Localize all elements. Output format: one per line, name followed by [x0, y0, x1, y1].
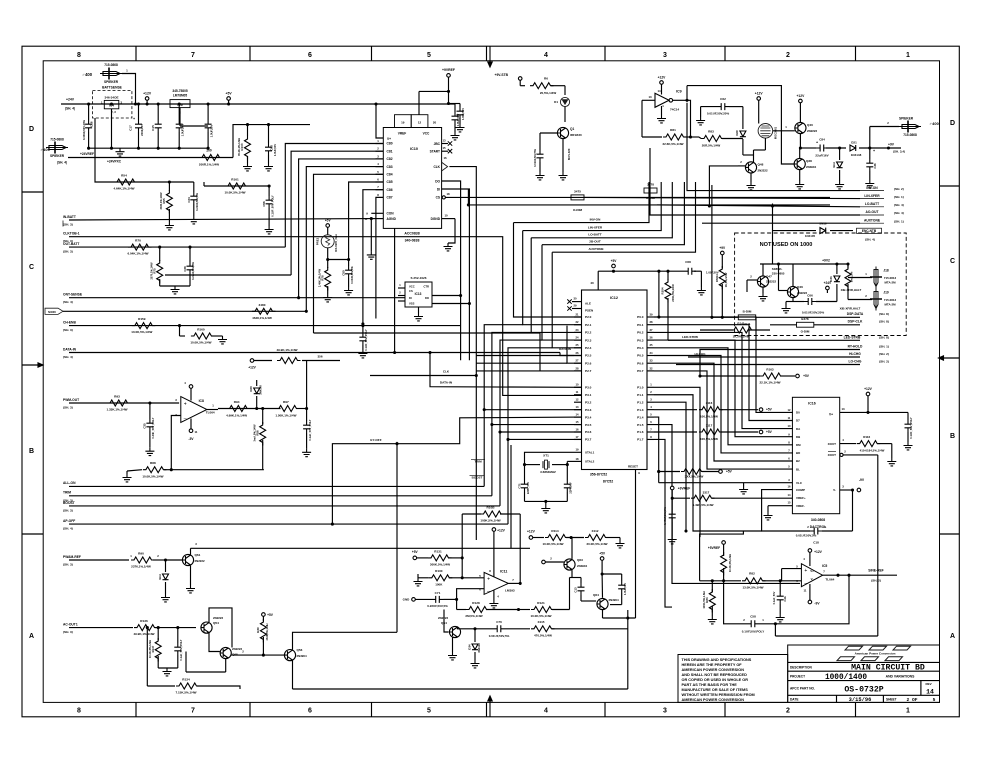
power V+ IC8: [184, 381, 193, 401]
wire RY-HOLD row: [700, 350, 860, 377]
svg-text:Q1: Q1: [570, 127, 574, 131]
svg-text:3mA,5%: 3mA,5%: [850, 271, 854, 282]
capacitor C20: [205, 104, 214, 148]
ground IC11: [489, 590, 499, 608]
svg-text:MTA-2M: MTA-2M: [884, 281, 896, 285]
wire IC8 output row: [207, 404, 281, 411]
svg-text:14: 14: [657, 89, 661, 93]
svg-text:87C52: 87C52: [603, 480, 613, 484]
svg-text:(SH. 8): (SH. 8): [879, 335, 889, 339]
svg-text:R70: R70: [135, 239, 141, 243]
svg-text:VSS: VSS: [409, 302, 415, 306]
ground Q54b: [448, 637, 457, 660]
svg-text:1: 1: [906, 52, 910, 59]
capacitor C77: [174, 626, 183, 668]
wire IC9 input: [642, 100, 655, 137]
svg-text:HI-CHG: HI-CHG: [695, 352, 707, 356]
svg-text:3.6864MHZ: 3.6864MHZ: [540, 470, 556, 474]
net label ONT-SENSE: [63, 293, 83, 305]
wire BOOST to P3.6: [470, 340, 582, 506]
svg-text:C34: C34: [187, 197, 191, 203]
svg-text:Q56: Q56: [297, 648, 303, 652]
svg-text:XTAL2: XTAL2: [585, 460, 595, 464]
svg-text:P2.6: P2.6: [585, 361, 592, 365]
svg-text:(SH. 3): (SH. 3): [63, 630, 73, 634]
capacitor C54: [358, 326, 368, 358]
svg-text:(SH. 4): (SH. 4): [63, 355, 73, 359]
power +12V: [143, 92, 152, 105]
transistor Q54b: [438, 616, 461, 638]
wire thermistor node: [328, 259, 349, 261]
svg-text:_: _: [486, 586, 490, 592]
capacitor C71: [517, 465, 530, 502]
wire DATA-IN: [69, 351, 582, 387]
svg-text:14: 14: [576, 413, 579, 417]
svg-text:C: C: [29, 264, 34, 271]
svg-text:P0.5: P0.5: [637, 354, 644, 358]
power +9V-STB: [495, 73, 525, 86]
inductor FB2 3478: [644, 183, 657, 201]
net label LO-BATT right: [860, 202, 904, 207]
capacitor C36: [865, 148, 877, 188]
svg-text:13: 13: [648, 95, 652, 99]
svg-text:2B-OUT: 2B-OUT: [589, 240, 601, 244]
svg-text:Q61: Q61: [195, 553, 201, 557]
svg-text:3mA: 3mA: [832, 162, 836, 168]
svg-text:J18: J18: [883, 269, 889, 273]
wire bus AO-OUT: [650, 148, 860, 215]
resistor R115: [531, 620, 628, 638]
svg-text:ONT-SENSE: ONT-SENSE: [63, 293, 83, 297]
svg-text:+24V: +24V: [66, 98, 75, 102]
title text date row: [790, 697, 936, 703]
svg-text:AUXTONE: AUXTONE: [588, 247, 603, 251]
svg-text:20R,5%,1/4W: 20R,5%,1/4W: [702, 144, 721, 148]
svg-text:3N4148: 3N4148: [477, 643, 481, 653]
svg-text:14: 14: [788, 493, 791, 497]
diode D33: [829, 264, 840, 302]
wire AC-OUT1: [69, 619, 196, 636]
svg-text:LM78M05: LM78M05: [173, 93, 188, 97]
svg-text:AP-OFF: AP-OFF: [63, 519, 75, 523]
svg-text:CTR: CTR: [423, 285, 429, 289]
svg-text:3: 3: [663, 52, 667, 59]
ground IC9: [657, 106, 666, 123]
svg-text:C56: C56: [262, 201, 266, 207]
svg-text:+: +: [816, 141, 818, 145]
svg-text:715-0868: 715-0868: [903, 133, 917, 137]
svg-text:22PF_50V: 22PF_50V: [526, 482, 530, 495]
svg-text:_: _: [183, 414, 187, 420]
svg-text:10.0K,5%,1/4W: 10.0K,5%,1/4W: [142, 474, 163, 478]
IC U10 ADC0838: [376, 115, 442, 243]
svg-text:2N2222: 2N2222: [807, 129, 818, 133]
svg-text:0.33F_50V_POLY: 0.33F_50V_POLY: [151, 417, 155, 438]
svg-text:(SH. 1): (SH. 1): [894, 195, 904, 199]
svg-text:1K,5%,1/4W: 1K,5%,1/4W: [733, 335, 750, 339]
svg-text:36: 36: [650, 336, 653, 340]
wire bus row P2.5 left: [476, 355, 574, 357]
svg-text:P2.4: P2.4: [585, 346, 592, 350]
svg-text:P3.7: P3.7: [585, 438, 592, 442]
net label IN-BATT: [63, 215, 76, 227]
dashed box BATTSENSE: [93, 86, 132, 119]
svg-text:+: +: [804, 568, 807, 574]
svg-text:AO-OUT: AO-OUT: [865, 210, 878, 214]
svg-text:+12V: +12V: [797, 94, 806, 98]
svg-text:A: A: [950, 633, 955, 640]
svg-text:1N4148: 1N4148: [851, 153, 862, 157]
op-amp IC8: [175, 397, 215, 423]
svg-text:10.0K,5%,1.NH: 10.0K,5%,1.NH: [728, 554, 732, 572]
svg-text:+12V: +12V: [248, 366, 256, 370]
svg-text:AMERICAN POWER CONVERSION: AMERICAN POWER CONVERSION: [682, 698, 745, 702]
power +24V box: [824, 281, 832, 293]
ground: [116, 148, 125, 156]
resistor R70: [127, 239, 151, 256]
svg-text:RESET: RESET: [628, 465, 638, 469]
wire OUT-BATT: [69, 246, 285, 249]
svg-text:8: 8: [77, 708, 81, 715]
net label DSP-CLK: [848, 320, 889, 324]
svg-text:40: 40: [590, 281, 594, 285]
power +5V pin 40: [590, 259, 684, 319]
svg-text:AND SHALL NOT BE REPRODUCED: AND SHALL NOT BE REPRODUCED: [682, 673, 748, 677]
svg-text:2N2222: 2N2222: [797, 291, 808, 295]
svg-text:A: A: [29, 633, 34, 640]
IC12 pin ALE no-connect: [567, 297, 581, 304]
transistor Q48: [745, 162, 768, 173]
svg-text:SPIEKER: SPIEKER: [104, 80, 119, 84]
svg-text:Q47: Q47: [766, 275, 772, 279]
svg-text:+5V: +5V: [412, 550, 419, 554]
svg-text:+5V: +5V: [267, 613, 274, 617]
power +9V left column: [719, 246, 726, 268]
connector J? speaker top: [82, 63, 122, 84]
capacitor C13: [574, 578, 597, 602]
resistor R94: [226, 400, 250, 418]
transistor Q64: [593, 593, 619, 610]
svg-text:4.99K,1%,1/4W: 4.99K,1%,1/4W: [226, 413, 247, 417]
capacitor C16: [82, 104, 94, 148]
svg-text:200R,1%,1/4W: 200R,1%,1/4W: [199, 163, 219, 167]
svg-text:P2.5: P2.5: [585, 354, 592, 358]
svg-text:V-: V-: [833, 488, 836, 492]
svg-text:TL064: TL064: [206, 411, 215, 415]
svg-text:1.33K,1%,1/4W: 1.33K,1%,1/4W: [106, 408, 127, 412]
svg-text:2: 2: [786, 708, 790, 715]
svg-text:XIB-XFIR,HALT: XIB-XFIR,HALT: [840, 307, 861, 311]
svg-text:+5V: +5V: [726, 470, 733, 474]
capacitor C45: [772, 581, 787, 622]
svg-text:B478: B478: [801, 317, 809, 321]
net label AUXTONE mid: [588, 247, 603, 251]
svg-text:28: 28: [576, 366, 579, 370]
svg-text:14: 14: [926, 689, 934, 696]
resistor R116: [857, 435, 897, 466]
svg-text:2570,1%,1/4W: 2570,1%,1/4W: [149, 262, 153, 280]
regulator IC6: [170, 89, 208, 126]
svg-text:♂400: ♂400: [929, 121, 939, 126]
svg-text:IC13: IC13: [415, 292, 422, 296]
svg-text:D33: D33: [829, 276, 833, 282]
svg-text:2: 2: [786, 52, 790, 59]
svg-text:(SH. 1): (SH. 1): [879, 345, 889, 349]
svg-text:22.1K,1%,1/4W: 22.1K,1%,1/4W: [759, 381, 780, 385]
svg-text:0.01UF,50V,5%: 0.01UF,50V,5%: [796, 534, 817, 538]
svg-text:R54: R54: [121, 174, 127, 178]
svg-text:KM14: KM14: [715, 274, 719, 282]
svg-text:DO: DO: [425, 296, 429, 300]
svg-text:C35: C35: [143, 423, 147, 429]
svg-text:ALL-ON: ALL-ON: [63, 481, 76, 485]
resistor R78: [317, 260, 332, 302]
svg-text:0.01UF,50V,5%: 0.01UF,50V,5%: [489, 634, 510, 638]
svg-text:AND VARIATIONS: AND VARIATIONS: [886, 674, 915, 678]
svg-text:CS: CS: [409, 289, 413, 293]
svg-text:P1.1: P1.1: [637, 393, 644, 397]
svg-text:TRIM: TRIM: [474, 460, 482, 464]
svg-text:+9V-STB: +9V-STB: [495, 73, 509, 77]
svg-text:P2.1: P2.1: [585, 323, 592, 327]
svg-text:C83: C83: [387, 165, 393, 169]
net label AO-OUT right: [860, 210, 904, 215]
capacitor C76: [489, 620, 530, 638]
svg-text:3mA,5%,1/4W: 3mA,5%,1/4W: [252, 424, 256, 441]
power +12V IC9: [658, 76, 667, 95]
capacitor C53a: [264, 123, 277, 171]
svg-text:5: 5: [933, 697, 936, 703]
svg-text:+: +: [487, 576, 490, 582]
svg-text:2N2222: 2N2222: [438, 616, 449, 620]
wire P2.6 stub: [567, 326, 582, 364]
wire Q54b base: [444, 610, 449, 633]
svg-text:DATA-IN: DATA-IN: [559, 347, 571, 351]
svg-text:0.1UF,50V,POLY: 0.1UF,50V,POLY: [742, 630, 764, 634]
svg-text:LIN-XFER: LIN-XFER: [864, 194, 880, 198]
svg-text:16: 16: [576, 427, 579, 431]
svg-text:100,5%,1/4W: 100,5%,1/4W: [700, 437, 718, 441]
net label LED-STRB: [844, 335, 889, 339]
svg-text:+12V: +12V: [527, 530, 536, 534]
wire CLKTOB-1: [69, 237, 582, 396]
net label BOOST: [63, 501, 75, 513]
svg-text:19: 19: [401, 121, 405, 125]
svg-text:P2.2: P2.2: [585, 331, 592, 335]
svg-text:340-0838: 340-0838: [405, 239, 420, 243]
resistor R117 pull-up: [657, 469, 732, 479]
title text project: [790, 674, 915, 682]
transistor Q46: [787, 264, 807, 298]
svg-text:_: _: [803, 578, 807, 584]
capacitor C21: [451, 104, 461, 140]
svg-text:DATE: DATE: [790, 698, 798, 702]
svg-text:2 OF: 2 OF: [906, 697, 917, 703]
wire Q63 emitter: [570, 570, 582, 577]
resistor R88: [123, 461, 264, 482]
svg-text:V+: V+: [829, 413, 833, 417]
junction dots rail: [87, 102, 230, 149]
notes text block: [682, 658, 755, 702]
wire LED-STRB row: [668, 335, 860, 340]
wire XOUT2: [840, 449, 878, 636]
svg-text:D0: D0: [796, 411, 800, 415]
svg-text:C84: C84: [819, 138, 825, 142]
svg-text:356: 356: [317, 355, 322, 359]
svg-text:+9V2: +9V2: [822, 259, 830, 263]
svg-text:2N3904: 2N3904: [297, 654, 308, 658]
wire Q54b collector row: [458, 626, 494, 628]
wire TRIM to P3.5: [471, 332, 582, 495]
svg-text:JBC: JBC: [434, 142, 441, 146]
svg-text:R130: R130: [435, 569, 443, 573]
net +9V2: [760, 259, 850, 266]
wire V+ to rail: [374, 102, 383, 138]
svg-text:300K,5%,1/4W: 300K,5%,1/4W: [430, 563, 450, 567]
ground: [160, 286, 190, 294]
svg-text:4648,1%,1/4W: 4648,1%,1/4W: [252, 316, 272, 320]
wire CH-ENB: [69, 324, 460, 327]
capacitor C72: [564, 465, 573, 502]
svg-text:American Power Conversion: American Power Conversion: [855, 652, 896, 656]
zone letters right: [950, 120, 955, 640]
svg-text:♂400: ♂400: [82, 72, 93, 77]
wire CY1 to plus input: [457, 589, 485, 610]
svg-text:+12V: +12V: [755, 92, 764, 96]
wire Q54 Q65 loop: [186, 608, 232, 672]
svg-text:2N2222: 2N2222: [766, 280, 777, 284]
svg-text:(SH. 4): (SH. 4): [894, 203, 904, 207]
ground Q38: [795, 170, 804, 189]
svg-text:3480: 3480: [259, 303, 266, 307]
svg-text:R116: R116: [863, 435, 870, 439]
resistor R84: [721, 552, 732, 582]
svg-text:S0802L: S0802L: [772, 267, 783, 271]
wire bus row8 2B-OUT: [542, 182, 684, 340]
svg-text:5: 5: [427, 52, 431, 59]
wire Q56 emitter bottom rail: [293, 661, 628, 690]
wire P1.4 down: [654, 417, 660, 483]
wire bottom outline: [627, 610, 629, 689]
net label LO-BATT mid: [588, 233, 601, 237]
wire Q63 base: [542, 557, 564, 564]
svg-text:GND: GND: [403, 598, 411, 602]
svg-text:IC5: IC5: [822, 564, 827, 568]
svg-text:V+: V+: [387, 137, 391, 141]
capacitor C84: [815, 138, 846, 158]
svg-text:22: 22: [576, 320, 579, 324]
svg-text:10.0K,5%,1/4W: 10.0K,5%,1/4W: [530, 614, 551, 618]
svg-text:VREF+: VREF+: [796, 496, 806, 500]
wire LO-CHG row: [676, 364, 860, 366]
wire Q47 base: [747, 275, 757, 293]
svg-text:IC8: IC8: [199, 399, 204, 403]
bus staircase IC10 analog inputs: [285, 144, 383, 334]
svg-text:PWM-OUT: PWM-OUT: [63, 398, 79, 402]
wire V- to -9V: [840, 478, 865, 492]
svg-text:C13: C13: [574, 587, 578, 593]
svg-text:C4b: C4b: [783, 596, 787, 602]
svg-text:D21: D21: [851, 141, 857, 145]
svg-text:23: 23: [576, 328, 579, 332]
connector J19: [840, 289, 897, 311]
power +5V Q64: [599, 552, 606, 598]
svg-text:20,5%,1/4W: 20,5%,1/4W: [540, 91, 557, 95]
net label CLKTOB-1: [63, 232, 80, 244]
wire bus stub under IC10: [393, 228, 396, 354]
svg-text:0.1UF_50V_POLY: 0.1UF_50V_POLY: [270, 195, 274, 217]
net label PWAM-REF: [63, 555, 81, 567]
net label AUXTONE right: [860, 218, 904, 223]
wire Q61 collector: [191, 542, 531, 555]
svg-text:DI: DI: [409, 296, 412, 300]
svg-text:100,5%,1/4W: 100,5%,1/4W: [700, 415, 718, 419]
svg-text:OS-0732P: OS-0732P: [844, 686, 883, 695]
svg-text:N4000: N4000: [48, 310, 56, 314]
wire bus row5 INV-ON: [514, 182, 650, 317]
svg-text:3mA: 3mA: [158, 574, 162, 580]
net label LIN-XFER mid: [588, 225, 603, 229]
net label AP-OFF: [63, 519, 75, 531]
capacitor C15: [151, 104, 162, 148]
wire AP-OFF: [69, 523, 508, 525]
svg-text:470,5%,1/4W: 470,5%,1/4W: [534, 634, 552, 638]
svg-text:(SH. 8): (SH. 8): [879, 320, 889, 324]
svg-text:APCC PART NO.: APCC PART NO.: [790, 687, 815, 691]
svg-text:-9V: -9V: [814, 602, 820, 606]
svg-text:C17: C17: [129, 125, 133, 131]
wire R161 row: [204, 182, 271, 188]
svg-text:CLK: CLK: [443, 370, 450, 374]
svg-text:13: 13: [576, 405, 579, 409]
transistor Q54a: [201, 616, 224, 633]
svg-text:10: 10: [576, 383, 579, 387]
resistor R76 sub-row: [248, 348, 340, 370]
capacitor C68: [684, 260, 719, 295]
svg-text:Q48: Q48: [758, 163, 764, 167]
svg-text:(SH. 4): (SH. 4): [63, 527, 73, 531]
svg-text:R10B: R10B: [487, 505, 496, 509]
svg-text:49.9K,1%,1/4W: 49.9K,1%,1/4W: [133, 632, 154, 636]
connector speaker right: [870, 117, 940, 149]
svg-text:346-34OE: 346-34OE: [104, 96, 118, 100]
svg-text:R160: R160: [197, 328, 205, 332]
svg-text:35.2K,1%,1.NH: 35.2K,1%,1.NH: [237, 138, 241, 156]
resistor R130: [414, 569, 485, 586]
wire bus ENC-NTB: [773, 230, 854, 232]
svg-text:6: 6: [308, 708, 312, 715]
svg-text:1K,5%,1/4W: 1K,5%,1/4W: [724, 272, 728, 287]
power -5V IC8: [189, 419, 198, 442]
resistor R93: [106, 395, 130, 412]
wire P1.1 to COMP loop: [654, 395, 762, 531]
resistor R141: [700, 322, 770, 339]
svg-text:+5V: +5V: [611, 259, 618, 263]
wire HI-CHG row: [688, 352, 860, 357]
power -9V IC5: [808, 584, 820, 606]
resistor R54: [113, 174, 137, 191]
svg-text:XT1: XT1: [543, 454, 549, 458]
svg-text:3XX,5%,1/4W: 3XX,5%,1/4W: [685, 475, 704, 479]
op-amp IC11: [479, 570, 515, 595]
diode D22 zener: [832, 148, 844, 189]
wire opto to Q40 base: [773, 125, 795, 131]
svg-text:P3.2: P3.2: [585, 400, 592, 404]
resistor R106 pull-up: [654, 401, 773, 419]
resistor R161: [224, 178, 248, 195]
wire row 275: [165, 274, 291, 276]
svg-text:74C14: 74C14: [670, 108, 679, 112]
